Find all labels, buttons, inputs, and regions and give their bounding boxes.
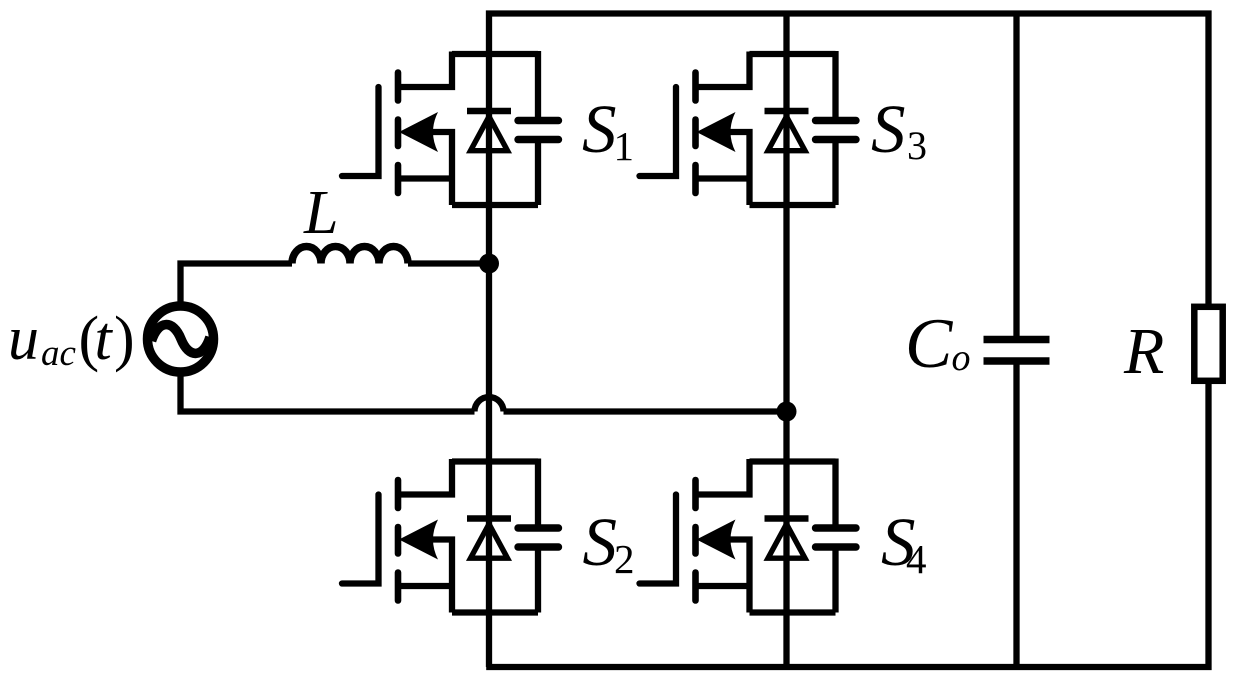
svg-text:S: S (583, 504, 618, 580)
svg-text:1: 1 (614, 123, 635, 169)
svg-text:2: 2 (614, 536, 635, 582)
svg-text:o: o (952, 337, 971, 379)
svg-text:L: L (303, 179, 338, 247)
svg-text:3: 3 (907, 123, 927, 168)
svg-text:R: R (1123, 315, 1164, 388)
svg-text:t: t (95, 305, 114, 373)
svg-text:S: S (582, 91, 617, 167)
svg-text:C: C (905, 305, 954, 383)
svg-text:ac: ac (41, 333, 77, 374)
svg-text:u: u (8, 305, 39, 373)
svg-text:4: 4 (906, 536, 927, 582)
svg-text:): ) (114, 305, 135, 373)
svg-text:S: S (871, 91, 906, 167)
